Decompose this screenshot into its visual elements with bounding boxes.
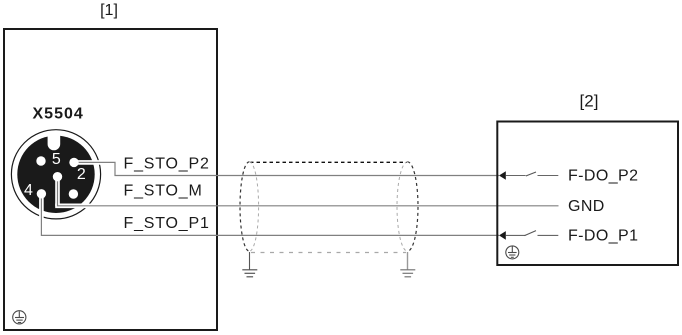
- protective earth symbol in box [2]: [506, 246, 519, 259]
- pin 3 (bottom-right, unlabeled): [69, 189, 78, 198]
- arrowhead F-DO_P2 input: [499, 171, 506, 180]
- left shield ground stem: [249, 252, 251, 270]
- svg-text:F-DO_P1: F-DO_P1: [568, 227, 638, 244]
- cable shield bottom dashed outline: [251, 252, 406, 254]
- wire F_STO_P1 (pin4 to box2, white casing over connector): [41, 194, 499, 236]
- svg-text:F_STO_P1: F_STO_P1: [124, 215, 210, 232]
- svg-text:4: 4: [24, 182, 33, 199]
- svg-text:[1]: [1]: [100, 2, 118, 19]
- wire F_STO_M (pin5 to box2, white casing over connector): [55, 177, 558, 207]
- svg-text:X5504: X5504: [33, 106, 84, 123]
- svg-text:F-DO_P2: F-DO_P2: [568, 168, 638, 185]
- device box [1]: [4, 29, 217, 330]
- left ground symbol: [242, 270, 257, 277]
- wire stub F-DO_P1: [506, 234, 526, 236]
- svg-text:F_STO_P2: F_STO_P2: [124, 155, 210, 172]
- switch contact F-DO_P2 (open blade): [526, 172, 536, 176]
- pin 1 (top-left, unlabeled): [36, 156, 45, 165]
- right shield ground stem: [407, 252, 409, 270]
- svg-text:2: 2: [77, 166, 86, 183]
- svg-text:[2]: [2]: [580, 92, 599, 111]
- svg-text:F_STO_M: F_STO_M: [124, 183, 203, 200]
- cable shield left ellipse (back arc light): [249, 162, 258, 251]
- pin 5 (center): [53, 172, 62, 181]
- cable shield left ellipse (front arc dark): [240, 162, 249, 251]
- cable shield right ellipse (front arc dark): [408, 162, 418, 251]
- device box [2]: [497, 122, 678, 266]
- svg-text:5: 5: [52, 151, 61, 168]
- switch contact F-DO_P1 (open blade): [525, 231, 537, 236]
- svg-text:GND: GND: [568, 198, 605, 215]
- connector X5504 outer ring: [11, 130, 100, 219]
- cable shield top dashed outline: [250, 161, 407, 163]
- wire stub F-DO_P2: [506, 175, 526, 177]
- pin 2 (top-right): [69, 158, 78, 167]
- wire F_STO_P2 (pin2 to box2, white casing over connector): [74, 162, 499, 175]
- cable shield right ellipse (back arc light): [397, 162, 407, 251]
- right ground symbol: [400, 270, 415, 277]
- protective earth symbol in box [1]: [13, 311, 26, 324]
- connector keyway notch: [48, 132, 61, 150]
- wire to label F-DO_P2: [538, 175, 559, 177]
- pin 4 (bottom-left): [37, 189, 46, 198]
- arrowhead F-DO_P1 input: [499, 231, 506, 240]
- wire to label F-DO_P1: [538, 234, 559, 236]
- connector X5504 body: [17, 136, 94, 213]
